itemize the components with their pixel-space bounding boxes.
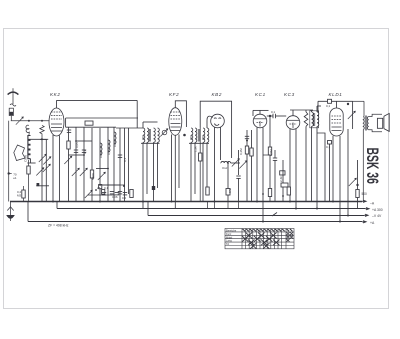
svg-text:KK2: KK2	[50, 92, 60, 97]
svg-text:1,2k: 1,2k	[194, 146, 198, 152]
svg-text:2,4k: 2,4k	[279, 176, 283, 182]
svg-text:KC3: KC3	[284, 92, 295, 97]
svg-text:0,2M: 0,2M	[239, 148, 243, 155]
svg-text:BSK 36: BSK 36	[363, 148, 381, 185]
svg-text:Osz: Osz	[222, 166, 228, 170]
svg-text:0,1: 0,1	[271, 110, 276, 114]
svg-text:–A: –A	[370, 202, 375, 206]
svg-text:C086: C086	[24, 154, 28, 162]
svg-text:Lang: Lang	[226, 239, 232, 243]
svg-text:TA: TA	[226, 242, 229, 246]
svg-text:M3: M3	[17, 194, 21, 198]
svg-text:KB2: KB2	[212, 92, 222, 97]
svg-text:Kurz: Kurz	[226, 232, 232, 236]
svg-text:0,95: 0,95	[107, 149, 111, 155]
svg-text:–V 4V: –V 4V	[372, 214, 382, 218]
svg-text:KLD1: KLD1	[329, 92, 343, 97]
svg-text:+A: +A	[370, 221, 375, 225]
svg-text:000: 000	[189, 135, 193, 140]
svg-text:25: 25	[97, 186, 101, 190]
svg-text:ZF = 498 kHz: ZF = 498 kHz	[48, 224, 69, 228]
svg-text:C06: C06	[112, 195, 118, 199]
svg-text:e1: e1	[13, 176, 17, 180]
svg-text:0,05: 0,05	[75, 142, 79, 148]
svg-text:1000: 1000	[99, 151, 103, 158]
svg-text:47k: 47k	[228, 188, 232, 193]
svg-text:0,1: 0,1	[326, 104, 331, 108]
svg-text:KF2: KF2	[169, 92, 179, 97]
svg-text:0,1: 0,1	[83, 149, 87, 154]
svg-text:0,1: 0,1	[326, 145, 331, 149]
svg-text:Mittel: Mittel	[226, 235, 233, 239]
svg-text:000: 000	[201, 135, 205, 140]
svg-text:0,2: 0,2	[122, 196, 127, 200]
svg-text:500: 500	[362, 192, 368, 196]
svg-text:1000: 1000	[113, 140, 117, 147]
svg-text:Bereiche: Bereiche	[226, 229, 237, 233]
svg-text:5000: 5000	[91, 173, 95, 180]
svg-text:0,1: 0,1	[104, 186, 109, 190]
svg-text:000: 000	[141, 135, 145, 140]
svg-text:0,1: 0,1	[123, 157, 127, 162]
svg-text:+A 300: +A 300	[372, 208, 383, 212]
svg-text:KC1: KC1	[255, 92, 266, 97]
